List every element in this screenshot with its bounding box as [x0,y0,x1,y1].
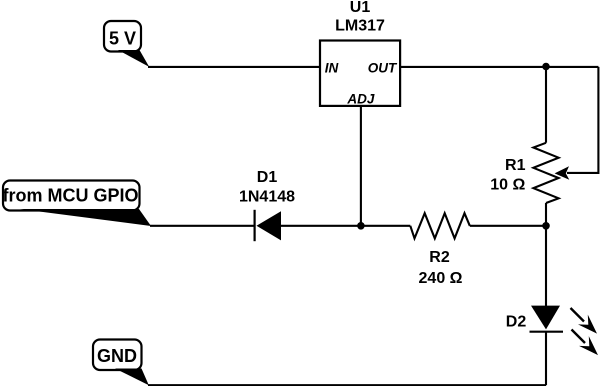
svg-text:R1: R1 [505,157,526,174]
junction dot node B [542,222,550,230]
net flag GND [93,340,149,386]
svg-text:OUT: OUT [368,60,398,75]
wire ADJ node to R2 [361,225,410,227]
svg-text:D1: D1 [257,169,278,186]
wire D1 anode to ADJ node [281,225,361,227]
junction dot ADJ node [357,222,365,230]
resistor R1 rheostat [533,143,569,203]
svg-text:1N4148: 1N4148 [239,189,295,206]
wire node B down to D2 anode [545,226,547,306]
svg-text:from MCU GPIO: from MCU GPIO [2,185,138,205]
diode D1 [255,210,281,241]
LED D2 [530,306,564,332]
wire ADJ pin [360,106,362,226]
wire U1 OUT to top-right corner [400,66,598,68]
regulator U1 box [320,41,400,106]
wire R1 bottom lead [545,203,547,226]
wire GND rail [148,384,546,386]
net flag from MCU GPIO [2,181,151,227]
wire GPIO to D1 cathode [150,225,255,227]
net flag 5V [104,21,149,67]
D2 emission arrows [571,308,599,355]
svg-text:IN: IN [325,60,339,75]
svg-text:R2: R2 [429,249,450,266]
wire top-right corner down to R1 wiper [567,67,598,173]
svg-text:ADJ: ADJ [346,91,374,106]
wire R1 top lead [545,67,547,143]
svg-text:LM317: LM317 [335,18,385,35]
svg-text:D2: D2 [506,314,527,331]
wire D2 cathode down [545,332,547,386]
wire R2 to node B [470,225,546,227]
svg-text:GND: GND [97,346,137,366]
wire 5V to U1 IN [148,66,320,68]
svg-text:240 Ω: 240 Ω [419,270,463,287]
svg-text:10 Ω: 10 Ω [490,177,525,194]
junction dot node OUT [542,63,550,71]
resistor R2 [410,213,470,238]
svg-text:5 V: 5 V [109,28,136,48]
svg-text:U1: U1 [350,0,371,16]
